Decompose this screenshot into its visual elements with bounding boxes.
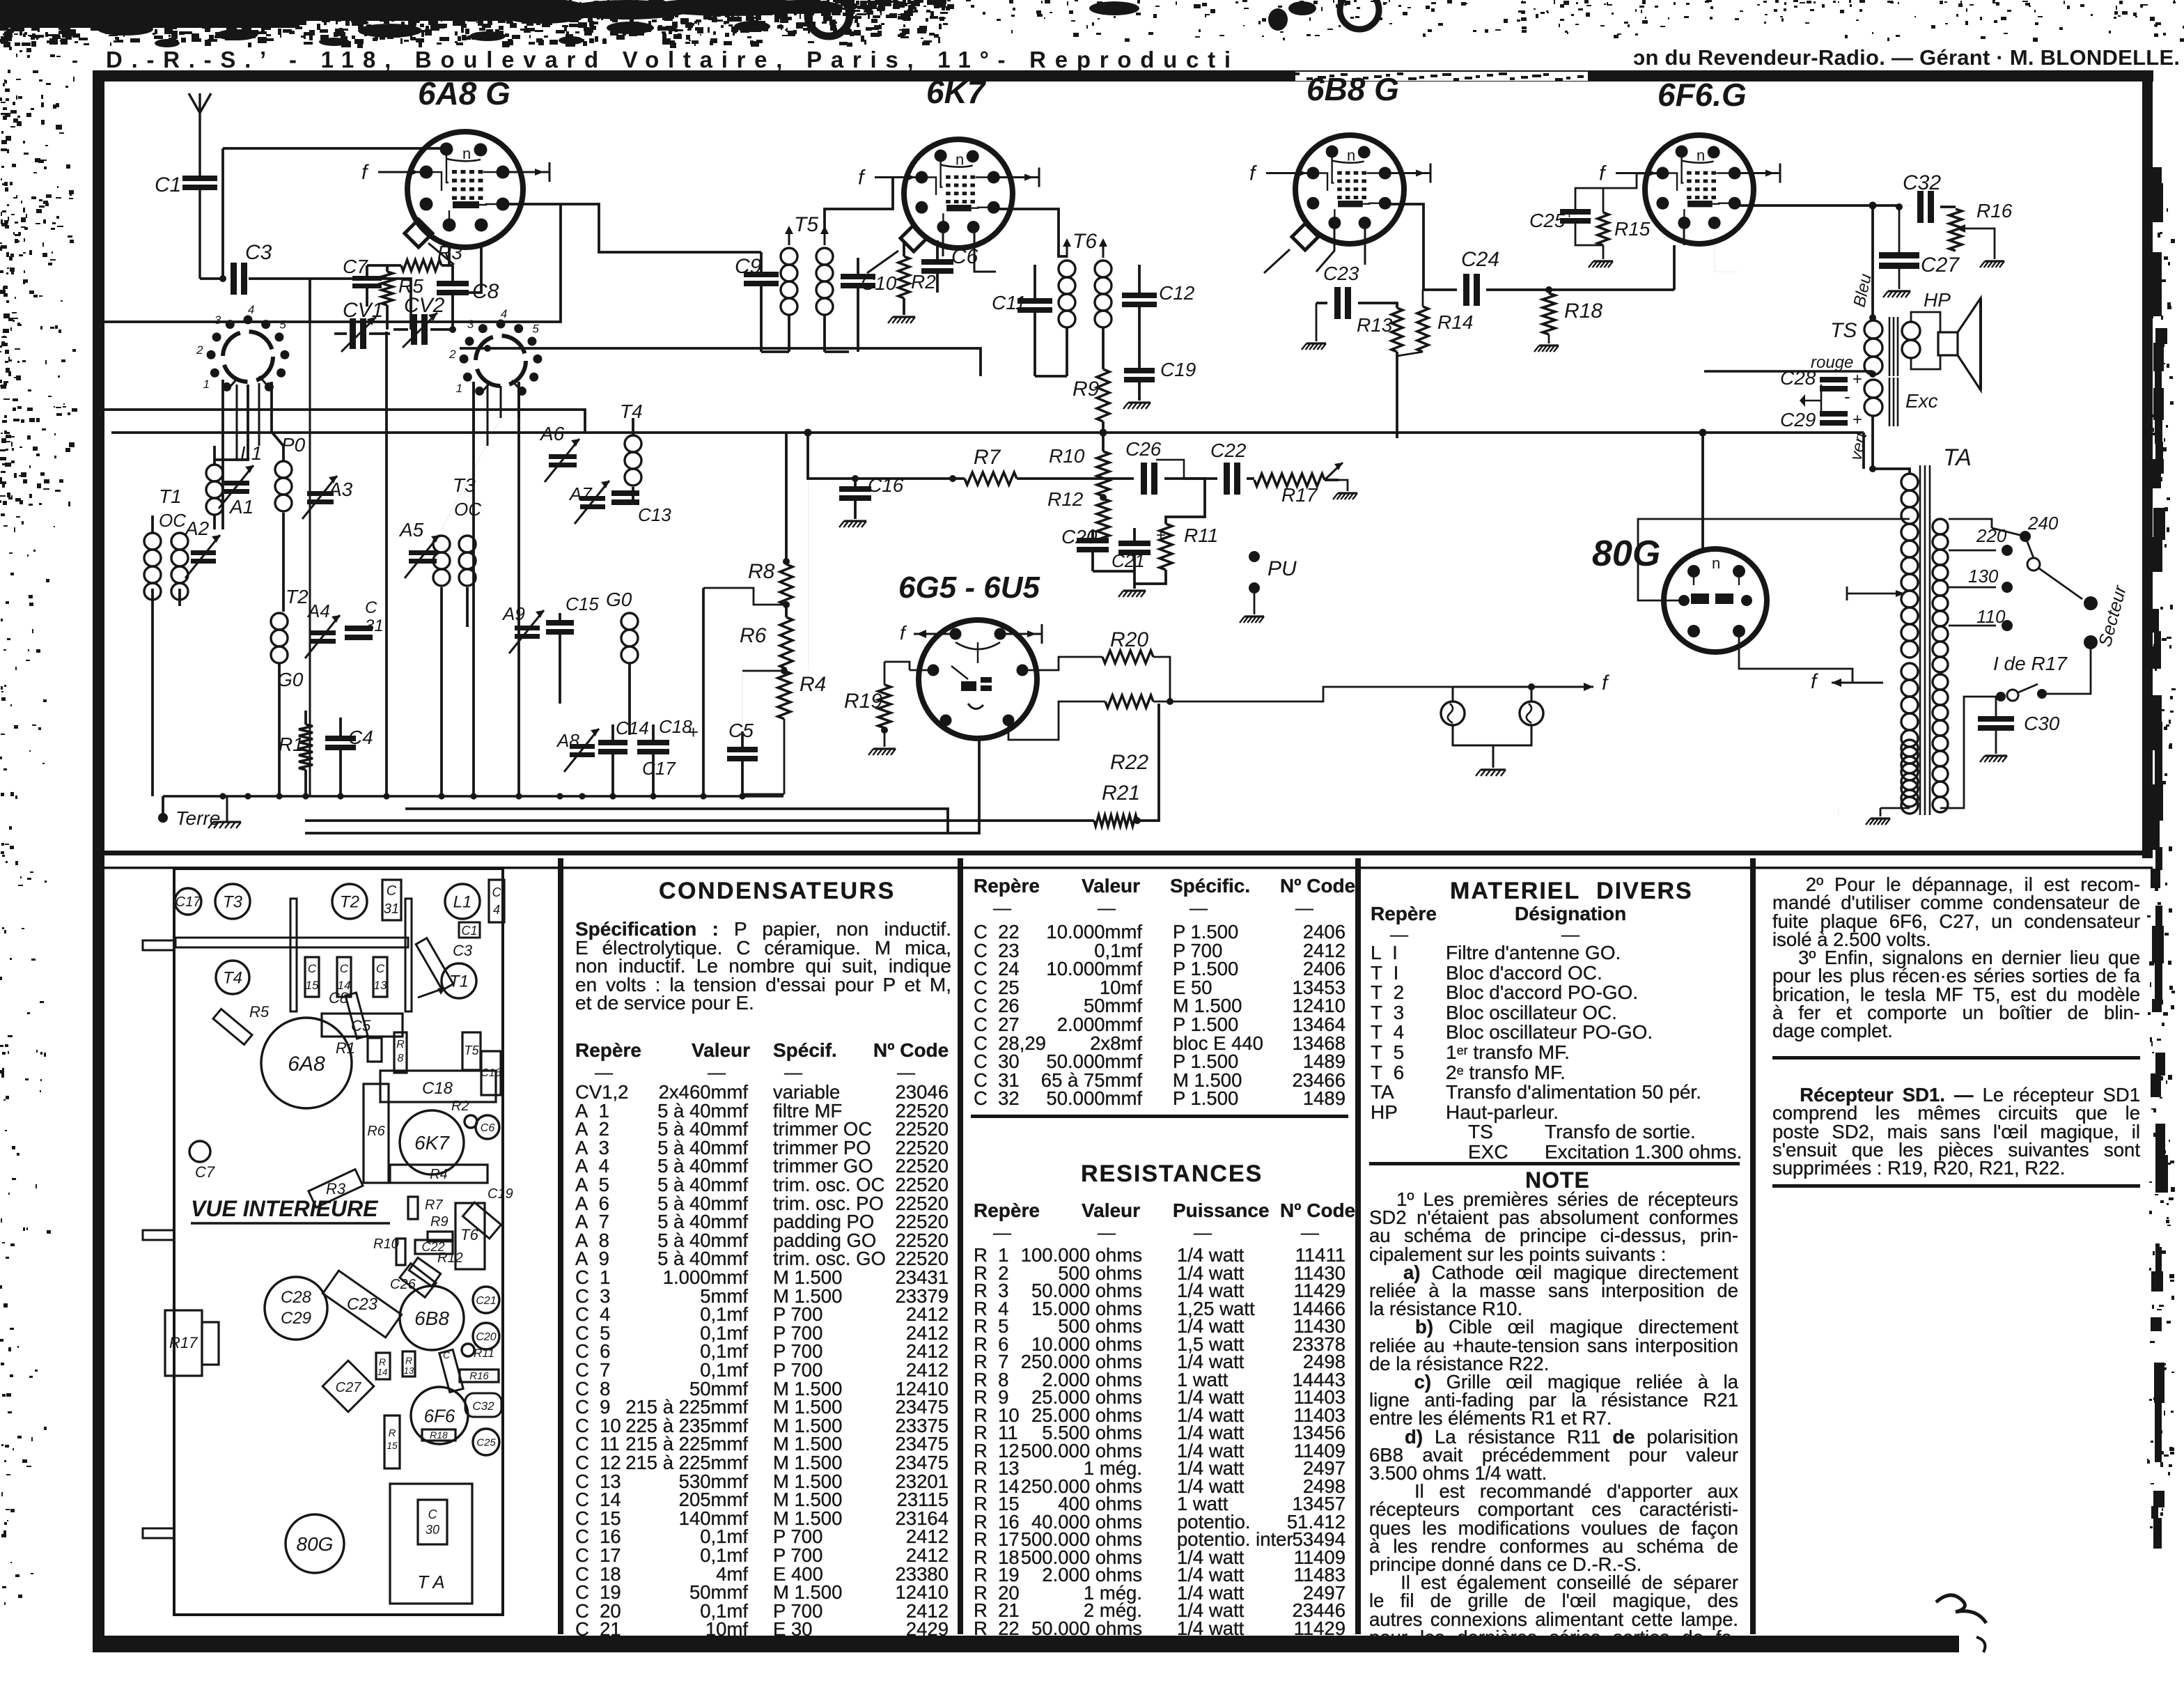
svg-text:C: C bbox=[376, 962, 385, 975]
wire frame loop y462 bbox=[104, 204, 561, 322]
svg-text:5: 5 bbox=[279, 318, 286, 331]
chassis part C20 bbox=[473, 1323, 499, 1349]
svg-text:C28: C28 bbox=[281, 1288, 312, 1307]
svg-text:-: - bbox=[1844, 386, 1850, 407]
wire AVC line bbox=[405, 809, 948, 833]
trimmer A5 bbox=[398, 519, 439, 578]
resistor R4 bbox=[778, 669, 826, 794]
svg-text:220: 220 bbox=[1976, 525, 2007, 546]
svg-text:80G: 80G bbox=[1592, 534, 1660, 574]
capacitor C5 bbox=[727, 720, 758, 794]
capacitor C19 bbox=[1124, 329, 1196, 401]
wire CV drop bbox=[309, 322, 311, 796]
svg-text:R15: R15 bbox=[1614, 218, 1651, 240]
wire plate drop to TS bbox=[1869, 205, 1876, 321]
svg-text:C13: C13 bbox=[638, 504, 671, 525]
node Secteur bbox=[2084, 582, 2130, 649]
svg-text:R3: R3 bbox=[326, 1180, 346, 1197]
transformer T4 bloc oscillateur bbox=[620, 401, 643, 502]
svg-text:6F6: 6F6 bbox=[424, 1405, 455, 1426]
capacitor C6 bbox=[921, 240, 978, 293]
svg-text:130: 130 bbox=[1968, 566, 1999, 587]
chassis part C18 bbox=[380, 1071, 496, 1102]
chassis part R16 bbox=[460, 1370, 499, 1382]
capacitor C30 bbox=[1978, 697, 2060, 754]
svg-text:C18: C18 bbox=[422, 1079, 453, 1098]
chassis part C25 bbox=[473, 1429, 499, 1455]
column rule 4 bbox=[1750, 858, 1756, 1634]
svg-text:15: 15 bbox=[306, 979, 319, 992]
capacitor C1 bbox=[155, 143, 217, 279]
svg-text:C: C bbox=[443, 1349, 451, 1360]
svg-text:C20: C20 bbox=[476, 1331, 496, 1343]
chassis part C13 bbox=[373, 957, 387, 997]
border right bbox=[2142, 70, 2153, 858]
svg-text:+: + bbox=[1852, 410, 1862, 429]
capacitor C29 bbox=[1780, 386, 1862, 431]
chassis part C15 bbox=[305, 957, 319, 997]
wire 6B8 plate bbox=[1387, 204, 1423, 290]
chassis part R18 bbox=[422, 1429, 455, 1441]
wire 6F6 plate to output bbox=[1737, 202, 1900, 210]
chassis part R6 bbox=[364, 1084, 389, 1183]
svg-text:Terre: Terre bbox=[175, 807, 220, 829]
svg-text:R18: R18 bbox=[430, 1429, 448, 1441]
svg-text:C7: C7 bbox=[343, 256, 368, 277]
svg-text:n: n bbox=[1696, 147, 1705, 164]
svg-text:R1: R1 bbox=[336, 1039, 355, 1057]
svg-text:6B8: 6B8 bbox=[414, 1308, 449, 1329]
svg-text:R12: R12 bbox=[437, 1250, 463, 1266]
svg-text:ɔn du Revendeur-Radio. — Géran: ɔn du Revendeur-Radio. — Gérant · M. BLO… bbox=[1633, 45, 2180, 70]
svg-text:R20: R20 bbox=[1110, 628, 1148, 651]
variable capacitor CV1 bbox=[334, 299, 390, 352]
svg-text:C23: C23 bbox=[1323, 263, 1359, 284]
svg-text:A7: A7 bbox=[568, 483, 593, 504]
capacitor C7 bbox=[343, 256, 382, 307]
tube 6B8G bbox=[1249, 71, 1430, 244]
chassis part T4 bbox=[216, 961, 249, 994]
chassis part R3 bbox=[309, 1170, 363, 1208]
svg-text:C: C bbox=[340, 962, 349, 975]
svg-text:L1: L1 bbox=[453, 893, 472, 912]
node Terre bbox=[158, 796, 220, 829]
wire grid line to 6A8 bbox=[219, 148, 446, 282]
svg-text:T2: T2 bbox=[340, 893, 359, 912]
svg-text:C5: C5 bbox=[351, 1017, 371, 1034]
svg-text:14: 14 bbox=[377, 1367, 387, 1377]
resistor R15 bbox=[1598, 188, 1651, 259]
column rule 3 bbox=[1355, 858, 1361, 1634]
svg-text:R18: R18 bbox=[1564, 300, 1602, 323]
resistor R5 bbox=[382, 265, 423, 329]
trimmer A9 bbox=[501, 603, 544, 653]
svg-text:R6: R6 bbox=[740, 624, 767, 647]
tube 6K7 bbox=[858, 74, 1039, 248]
svg-text:R7: R7 bbox=[425, 1197, 443, 1213]
dial lamp 2 bbox=[1520, 701, 1543, 725]
grid cap 6A8 bbox=[405, 219, 454, 265]
trimmer A2 bbox=[184, 518, 220, 578]
svg-text:15: 15 bbox=[387, 1440, 398, 1451]
svg-text:T1: T1 bbox=[159, 486, 182, 507]
svg-text:R: R bbox=[379, 1356, 386, 1367]
svg-text:C17: C17 bbox=[642, 758, 676, 779]
svg-text:C: C bbox=[492, 885, 502, 899]
svg-text:VUE INTERIEURE: VUE INTERIEURE bbox=[191, 1196, 379, 1221]
ground under lamps bbox=[1481, 768, 1506, 770]
capacitor C20 bbox=[1061, 526, 1109, 571]
svg-text:R10: R10 bbox=[373, 1236, 399, 1252]
svg-text:6A8 G: 6A8 G bbox=[418, 75, 510, 111]
svg-text:R21: R21 bbox=[1102, 782, 1140, 805]
svg-text:G0: G0 bbox=[606, 589, 632, 610]
wire HT bus bbox=[111, 429, 1864, 439]
speaker HP bbox=[1911, 289, 1981, 390]
chassis part R15 bbox=[384, 1416, 400, 1468]
node PU pickup bbox=[1249, 551, 1297, 614]
svg-text:4: 4 bbox=[493, 903, 500, 917]
wire C3 to CV1 node bbox=[249, 279, 411, 329]
capacitor C23 bbox=[1316, 263, 1397, 341]
coil P0 of T2 bbox=[275, 434, 306, 612]
chassis part C3 bbox=[416, 938, 453, 991]
column rule 1 bbox=[558, 858, 563, 1634]
wire cathode return bbox=[305, 740, 979, 833]
chassis part L1 bbox=[445, 884, 480, 919]
svg-text:OC: OC bbox=[454, 499, 481, 520]
chassis part C1 bbox=[459, 922, 480, 938]
transformer T6 2e transfo MF bbox=[1035, 230, 1111, 376]
secondary tap 130 bbox=[1949, 566, 2013, 593]
svg-text:1: 1 bbox=[456, 382, 462, 395]
capacitor C25 bbox=[1529, 173, 1662, 245]
ground under R17 bbox=[1338, 492, 1357, 494]
TA primary center tap bbox=[1847, 587, 1905, 600]
svg-text:T3: T3 bbox=[223, 893, 243, 912]
svg-text:C: C bbox=[428, 1507, 438, 1521]
svg-text:T2: T2 bbox=[286, 586, 309, 607]
ground under C30 bbox=[1985, 754, 2007, 757]
svg-text:n: n bbox=[462, 145, 471, 162]
transformer T3 bloc oscillateur OC bbox=[433, 474, 481, 796]
wire HT to TS primary bottom bbox=[1704, 371, 1876, 378]
ground under C21 bbox=[1123, 589, 1146, 591]
svg-text:C19: C19 bbox=[1160, 359, 1196, 380]
trimmer A3 bbox=[302, 476, 353, 519]
variable capacitor CV2 bbox=[393, 294, 451, 348]
chassis outline bbox=[174, 869, 503, 1615]
capacitor C24 bbox=[1423, 248, 1674, 306]
svg-text:R16: R16 bbox=[469, 1370, 489, 1382]
svg-text:C21: C21 bbox=[476, 1295, 496, 1307]
resistor R7 bbox=[808, 433, 1086, 485]
chassis part R17 bbox=[165, 1310, 202, 1376]
svg-text:T A: T A bbox=[417, 1572, 444, 1592]
capacitor C18 electrolytic bbox=[637, 716, 699, 796]
svg-text:R14: R14 bbox=[1437, 311, 1473, 333]
svg-text:240: 240 bbox=[2027, 513, 2059, 534]
svg-text:R2: R2 bbox=[451, 1099, 469, 1114]
antenna bbox=[189, 93, 211, 143]
svg-text:31: 31 bbox=[365, 616, 384, 635]
coil L1 antenna filter bbox=[206, 442, 262, 529]
svg-text:C29: C29 bbox=[1780, 409, 1816, 431]
trimmer A7 bbox=[568, 481, 609, 524]
chassis part T3 bbox=[215, 884, 250, 919]
svg-text:G0: G0 bbox=[277, 669, 304, 690]
svg-text:C29: C29 bbox=[281, 1309, 311, 1328]
svg-text:T4: T4 bbox=[223, 969, 242, 988]
svg-text:R13: R13 bbox=[1357, 314, 1393, 336]
chassis part R1 bbox=[368, 1038, 382, 1062]
oscillator switch S1 bbox=[196, 303, 289, 391]
svg-text:C22: C22 bbox=[1210, 440, 1247, 461]
svg-text:3: 3 bbox=[467, 318, 474, 331]
chassis dial shaft bbox=[175, 938, 408, 947]
ground under C23 bbox=[1306, 342, 1326, 344]
svg-text:30: 30 bbox=[426, 1523, 439, 1537]
chassis part C23 bbox=[322, 1271, 401, 1337]
chassis part R4 bbox=[390, 1165, 487, 1183]
svg-text:PU: PU bbox=[1267, 557, 1297, 580]
ground under R19 bbox=[873, 747, 896, 750]
svg-text:13: 13 bbox=[404, 1365, 414, 1376]
svg-text:C27: C27 bbox=[1921, 254, 1960, 277]
chassis tabs bbox=[143, 940, 174, 950]
chassis part C27 bbox=[322, 1360, 374, 1412]
wire TA bottom winding bbox=[1839, 740, 1918, 816]
transformer TS sortie bbox=[1830, 317, 1920, 376]
border schematic bottom rule bbox=[93, 851, 2153, 855]
svg-text:6B8 G: 6B8 G bbox=[1306, 71, 1399, 107]
svg-text:4: 4 bbox=[248, 303, 254, 316]
svg-text:R: R bbox=[389, 1427, 396, 1439]
svg-text:R2: R2 bbox=[911, 271, 936, 293]
grid cap 6K7 bbox=[867, 225, 927, 273]
svg-text:C3: C3 bbox=[245, 241, 272, 264]
svg-text:+: + bbox=[688, 722, 699, 743]
wire lamp loop bbox=[1453, 683, 1535, 768]
chassis part C7 bbox=[189, 1141, 210, 1162]
transformer T2 coil GO bbox=[271, 586, 309, 796]
resistor R13 bbox=[1357, 308, 1403, 438]
wire 6K7 cathode drops bbox=[943, 227, 996, 272]
trimmer A4 bbox=[305, 600, 340, 658]
tube 6A8G bbox=[361, 75, 549, 247]
svg-text:+: + bbox=[1852, 370, 1862, 389]
svg-text:2: 2 bbox=[196, 343, 203, 357]
resistor R11 bbox=[1134, 524, 1218, 584]
secondary tap 240 bbox=[1949, 513, 2059, 542]
svg-text:R8: R8 bbox=[748, 560, 775, 583]
resistor R6 bbox=[740, 601, 793, 669]
svg-text:110: 110 bbox=[1976, 606, 2006, 627]
chassis part C5 bbox=[322, 1014, 403, 1037]
chassis tube 6B8 bbox=[400, 1286, 464, 1350]
wire eye to lamps bbox=[1170, 687, 1453, 701]
svg-text:R5: R5 bbox=[249, 1003, 270, 1021]
svg-text:C1: C1 bbox=[155, 173, 181, 196]
wire bus drop to TA bbox=[1862, 433, 1865, 469]
svg-text:D.-R.-S.’ - 118, Boulevard Vol: D.-R.-S.’ - 118, Boulevard Voltaire, Par… bbox=[106, 47, 1231, 72]
wire sockets to coils bbox=[214, 380, 519, 529]
svg-text:1: 1 bbox=[203, 378, 210, 391]
svg-text:C1: C1 bbox=[461, 924, 477, 938]
label f arrow lamps bbox=[1531, 672, 1609, 695]
chassis part T1 bbox=[442, 963, 476, 998]
capacitor C11 bbox=[992, 265, 1052, 376]
svg-text:C3: C3 bbox=[453, 942, 473, 959]
resistor R10 bbox=[1049, 433, 1109, 496]
svg-text:R7: R7 bbox=[974, 446, 1001, 469]
svg-text:4: 4 bbox=[501, 307, 507, 320]
svg-text:TS: TS bbox=[1830, 319, 1857, 342]
chassis part T6 bbox=[455, 1203, 485, 1269]
svg-text:R5: R5 bbox=[398, 275, 423, 297]
svg-text:C6: C6 bbox=[481, 1122, 495, 1134]
svg-text:C24: C24 bbox=[1461, 248, 1499, 271]
wire frame loop y588 bbox=[104, 410, 585, 433]
svg-text:C18: C18 bbox=[659, 716, 692, 737]
resistor R20 bbox=[1022, 628, 1170, 701]
capacitor C27 bbox=[1879, 203, 1960, 289]
wire antenna to C3 bbox=[200, 277, 224, 280]
svg-text:A5: A5 bbox=[398, 519, 424, 541]
dial lamp 1 bbox=[1441, 701, 1465, 725]
svg-text:Exc: Exc bbox=[1905, 390, 1938, 412]
resistor R18 bbox=[1543, 293, 1602, 343]
border top bar bbox=[103, 70, 2153, 82]
secondary tap 220 bbox=[1949, 525, 2013, 556]
svg-text:R: R bbox=[396, 1039, 405, 1050]
ground near Terre bbox=[208, 796, 241, 828]
svg-text:R6: R6 bbox=[367, 1124, 385, 1139]
chassis part R11 bbox=[462, 1344, 474, 1356]
ground under PU bbox=[1245, 615, 1264, 617]
switch I de R17 bbox=[1940, 648, 2091, 808]
capacitor C26 bbox=[1086, 438, 1205, 524]
capacitor C9 bbox=[735, 252, 779, 352]
resistor R19 bbox=[844, 662, 933, 747]
svg-text:n: n bbox=[955, 151, 964, 169]
wire R8 tap bbox=[703, 588, 788, 731]
svg-text:R9: R9 bbox=[430, 1214, 448, 1230]
svg-text:6K7: 6K7 bbox=[926, 74, 987, 110]
svg-text:6G5 - 6U5: 6G5 - 6U5 bbox=[898, 571, 1040, 605]
chassis part C32 bbox=[465, 1393, 501, 1417]
capacitor C12 bbox=[1122, 265, 1195, 329]
ground under R18 bbox=[1539, 344, 1559, 346]
trimmer A8 bbox=[556, 729, 599, 772]
svg-text:n: n bbox=[1347, 147, 1355, 164]
resistor R2 bbox=[898, 240, 936, 315]
svg-text:31: 31 bbox=[384, 901, 399, 917]
svg-text:C28: C28 bbox=[1780, 367, 1816, 389]
svg-text:C19: C19 bbox=[487, 1186, 513, 1202]
chassis part C16 bbox=[481, 1051, 501, 1095]
svg-text:R: R bbox=[405, 1355, 412, 1366]
wire C24 to 6F6 grid bbox=[1673, 245, 1676, 290]
svg-text:P0: P0 bbox=[281, 434, 306, 456]
chassis part C28 C29 bbox=[265, 1277, 327, 1340]
svg-text:rouge: rouge bbox=[1811, 353, 1853, 372]
resistor R3 bbox=[367, 242, 462, 271]
wire 80G anode feeds bbox=[1638, 433, 1910, 683]
tube 80G bbox=[1592, 534, 1767, 652]
svg-text:C17: C17 bbox=[175, 894, 202, 910]
svg-text:R9: R9 bbox=[1072, 378, 1100, 401]
svg-text:T5: T5 bbox=[794, 213, 818, 236]
wire 6B8 drops bbox=[1316, 224, 1365, 272]
svg-text:C8: C8 bbox=[329, 989, 349, 1007]
chassis part T2 bbox=[332, 884, 367, 919]
transformer TA alimentation bbox=[1873, 444, 1972, 815]
svg-text:C: C bbox=[365, 598, 377, 617]
coil GO oscillator bbox=[606, 589, 638, 735]
resistor R21 bbox=[1094, 704, 1159, 826]
chassis tube 6F6 bbox=[411, 1387, 468, 1444]
transformer T5 1er transfo MF bbox=[761, 213, 849, 352]
svg-text:R4: R4 bbox=[430, 1167, 448, 1182]
chassis part R7 bbox=[408, 1197, 418, 1219]
svg-text:T6: T6 bbox=[1072, 230, 1097, 253]
chassis part C14 bbox=[337, 957, 351, 997]
chassis part C4 bbox=[489, 880, 504, 922]
resistor R1 bbox=[279, 711, 313, 796]
svg-text:C14: C14 bbox=[616, 718, 649, 738]
chassis part T5 bbox=[462, 1032, 481, 1070]
capacitor C15 bbox=[546, 594, 599, 704]
capacitor C3 bbox=[231, 241, 272, 295]
oscillator switch S2 bbox=[448, 307, 542, 396]
svg-text:C25: C25 bbox=[476, 1436, 496, 1448]
chassis part R14 bbox=[376, 1353, 390, 1379]
chassis tube 6A8 bbox=[261, 1018, 352, 1108]
svg-text:R12: R12 bbox=[1047, 488, 1084, 510]
svg-text:A3: A3 bbox=[327, 479, 353, 500]
chassis tube 6K7 bbox=[400, 1110, 464, 1174]
svg-text:R11: R11 bbox=[474, 1347, 494, 1360]
svg-text:HP: HP bbox=[1924, 289, 1951, 311]
svg-text:T5: T5 bbox=[464, 1044, 479, 1057]
wire anti-fading to R21 bbox=[305, 819, 1094, 822]
ground under R2 bbox=[893, 316, 915, 318]
svg-text:CV2: CV2 bbox=[404, 294, 445, 317]
chassis part C21 bbox=[473, 1287, 499, 1313]
svg-text:R16: R16 bbox=[1976, 200, 2013, 222]
resistor R17 potentiometer bbox=[1254, 463, 1348, 506]
field coil Exc bbox=[1864, 378, 1938, 426]
wire 6A8 screen bbox=[449, 247, 481, 293]
ground under C27 bbox=[1888, 290, 1910, 292]
capacitor C32 bbox=[1900, 171, 1956, 223]
svg-text:I de R17: I de R17 bbox=[1993, 653, 2068, 674]
ground TA bottom bbox=[1866, 808, 1890, 825]
capacitor C22 bbox=[1156, 440, 1254, 495]
border bottom bar bbox=[93, 1636, 1959, 1652]
svg-text:C16: C16 bbox=[868, 474, 904, 496]
svg-text:C16: C16 bbox=[481, 1067, 501, 1079]
capacitor C16 bbox=[839, 474, 904, 519]
resistor R16 tone potentiometer bbox=[1949, 200, 2013, 259]
trimmer A1 bbox=[219, 465, 253, 518]
chassis part C22 bbox=[415, 1240, 453, 1254]
svg-text:C: C bbox=[387, 883, 397, 899]
capacitor C14 bbox=[598, 718, 649, 796]
chassis part C24 bbox=[439, 1349, 463, 1392]
wire bottom returns bbox=[742, 433, 809, 794]
